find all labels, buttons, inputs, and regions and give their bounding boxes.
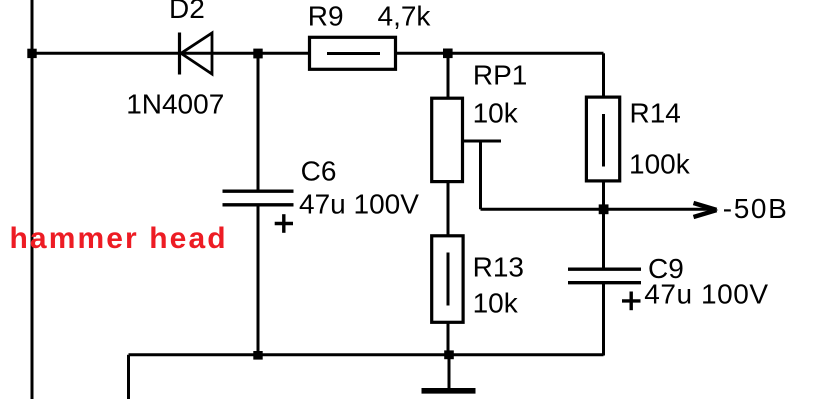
svg-text:R9: R9 bbox=[308, 1, 344, 32]
diode D2 bbox=[180, 33, 213, 75]
wire: C6 bottom vertical bbox=[257, 205, 260, 356]
ground bbox=[422, 355, 476, 391]
node: output junction bbox=[599, 204, 609, 214]
svg-text:hammer head: hammer head bbox=[10, 222, 228, 255]
wire: C6 branch vertical (top) bbox=[257, 53, 260, 191]
svg-text:RP1: RP1 bbox=[473, 60, 527, 91]
svg-text:100k: 100k bbox=[629, 149, 691, 180]
svg-text:1N4007: 1N4007 bbox=[126, 89, 224, 120]
node: junction top rail / C6 branch bbox=[253, 49, 262, 59]
svg-text:C6: C6 bbox=[301, 156, 337, 187]
svg-text:4,7k: 4,7k bbox=[378, 1, 432, 32]
node: junction left bus / top rail bbox=[27, 49, 36, 58]
wire: RP1 branch vertical (top) bbox=[447, 53, 450, 97]
capacitor C6 bbox=[223, 191, 294, 233]
wire: R14 bottom to output node bbox=[602, 183, 605, 210]
wire: top rail corner down to R14 bbox=[602, 53, 605, 95]
node: junction bottom rail / R13-ground bbox=[444, 350, 454, 359]
wire: wiper horizontal to output node bbox=[481, 208, 604, 211]
wire: RP1 to R13 vertical bbox=[447, 183, 450, 235]
wire: bottom horizontal rail bbox=[129, 353, 604, 356]
svg-text:R13: R13 bbox=[473, 252, 524, 283]
wire: top horizontal rail bbox=[32, 52, 604, 55]
svg-text:-50B: -50B bbox=[723, 193, 789, 224]
svg-text:47u 100V: 47u 100V bbox=[299, 189, 419, 220]
wire: output to arrow bbox=[604, 208, 711, 211]
svg-text:10k: 10k bbox=[473, 97, 519, 128]
capacitor C9 bbox=[568, 269, 641, 310]
resistor R14 bbox=[586, 97, 619, 181]
node: junction bottom rail / C6 branch bbox=[253, 351, 262, 360]
arrowhead output bbox=[694, 203, 719, 217]
wire: bottom-left vertical drop bbox=[127, 355, 130, 399]
wire: output node down to C9 bbox=[602, 209, 605, 269]
svg-text:10k: 10k bbox=[473, 287, 519, 318]
wire: left vertical bus bbox=[31, 0, 34, 399]
node: junction top rail / RP1 branch bbox=[443, 49, 453, 59]
resistor R9 bbox=[310, 37, 396, 69]
svg-text:R14: R14 bbox=[630, 98, 681, 129]
wire: RP1 wiper drop bbox=[479, 141, 482, 209]
wire: C9 bottom vertical bbox=[602, 283, 605, 356]
wire: R13 bottom vertical bbox=[447, 324, 450, 355]
resistor R13 bbox=[432, 236, 463, 322]
svg-text:47u 100V: 47u 100V bbox=[644, 278, 768, 309]
svg-text:D2: D2 bbox=[169, 0, 205, 24]
potentiometer RP1 bbox=[432, 98, 501, 181]
